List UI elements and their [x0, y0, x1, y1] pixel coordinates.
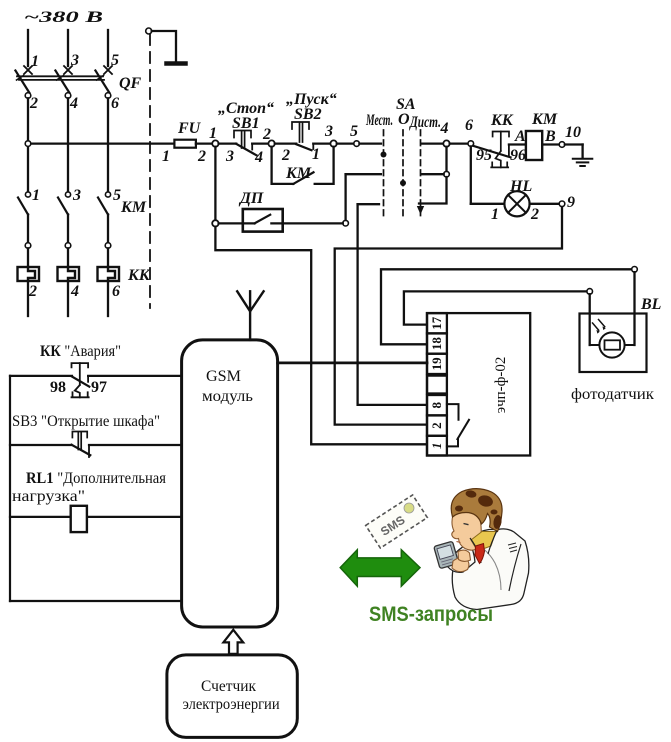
- svg-text:КК "Авария": КК "Авария": [40, 343, 121, 360]
- svg-text:КМ: КМ: [285, 165, 312, 182]
- svg-text:6: 6: [111, 95, 119, 112]
- svg-text:ДП: ДП: [238, 190, 264, 207]
- svg-text:SB2: SB2: [294, 106, 322, 123]
- svg-text:1: 1: [312, 146, 320, 163]
- svg-text:КМ: КМ: [120, 199, 147, 216]
- svg-text:Дист.: Дист.: [409, 114, 441, 131]
- svg-text:Мест.: Мест.: [365, 112, 393, 129]
- svg-text:1: 1: [162, 148, 170, 165]
- svg-text:3: 3: [324, 123, 333, 140]
- svg-text:HL: HL: [509, 178, 532, 195]
- svg-text:6: 6: [465, 117, 473, 134]
- svg-text:1: 1: [491, 206, 499, 223]
- svg-text:модуль: модуль: [202, 388, 253, 405]
- svg-text:4: 4: [69, 95, 78, 112]
- svg-text:4: 4: [70, 283, 79, 300]
- svg-text:98: 98: [50, 379, 66, 396]
- svg-text:2: 2: [530, 206, 539, 223]
- svg-text:2: 2: [197, 148, 206, 165]
- svg-text:3: 3: [72, 187, 81, 204]
- svg-text:17: 17: [429, 316, 444, 330]
- svg-text:2: 2: [262, 126, 271, 143]
- svg-text:RL1 "Дополнительная: RL1 "Дополнительная: [26, 470, 167, 487]
- svg-text:~380 В: ~380 В: [24, 9, 104, 26]
- svg-text:18: 18: [429, 337, 444, 351]
- svg-text:SB3 "Открытие шкафа": SB3 "Открытие шкафа": [12, 413, 160, 430]
- svg-text:QF: QF: [119, 75, 142, 92]
- svg-text:SMS-запросы: SMS-запросы: [369, 603, 493, 626]
- svg-text:96: 96: [510, 147, 526, 164]
- svg-text:3: 3: [70, 52, 79, 69]
- svg-text:SB1: SB1: [232, 115, 260, 132]
- svg-text:8: 8: [429, 401, 444, 408]
- svg-text:9: 9: [567, 194, 575, 211]
- svg-text:2: 2: [29, 95, 38, 112]
- svg-text:6: 6: [112, 283, 120, 300]
- svg-text:1: 1: [31, 53, 39, 70]
- svg-text:КК: КК: [127, 267, 151, 284]
- svg-text:4: 4: [254, 149, 263, 166]
- svg-text:5: 5: [113, 187, 121, 204]
- svg-text:фотодатчик: фотодатчик: [571, 386, 654, 403]
- svg-text:эчп-ф-02: эчп-ф-02: [493, 357, 509, 414]
- svg-text:1: 1: [429, 442, 444, 449]
- svg-text:О: О: [398, 111, 410, 128]
- svg-text:4: 4: [440, 120, 449, 137]
- svg-text:A: A: [514, 128, 526, 145]
- svg-text:Счетчик: Счетчик: [201, 678, 256, 695]
- svg-text:BL: BL: [640, 296, 662, 313]
- svg-text:5: 5: [350, 123, 358, 140]
- svg-text:КМ: КМ: [531, 111, 558, 128]
- svg-text:КК: КК: [490, 112, 514, 129]
- svg-text:1: 1: [32, 187, 40, 204]
- svg-text:5: 5: [111, 52, 119, 69]
- svg-text:10: 10: [565, 124, 581, 141]
- svg-text:19: 19: [429, 357, 444, 371]
- svg-text:B: B: [544, 128, 556, 145]
- svg-text:97: 97: [91, 379, 107, 396]
- svg-text:2: 2: [28, 283, 37, 300]
- svg-text:2: 2: [281, 147, 290, 164]
- svg-text:электроэнергии: электроэнергии: [183, 696, 280, 713]
- svg-text:FU: FU: [177, 120, 202, 137]
- svg-text:нагрузка": нагрузка": [12, 488, 85, 505]
- svg-text:1: 1: [209, 125, 217, 142]
- svg-text:3: 3: [225, 148, 234, 165]
- svg-text:95: 95: [476, 147, 492, 164]
- svg-text:2: 2: [429, 422, 444, 429]
